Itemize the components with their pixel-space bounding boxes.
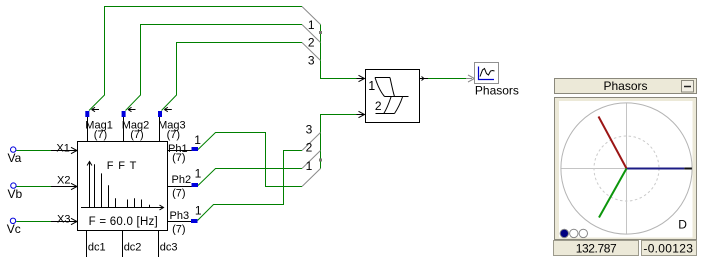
svg-text:2: 2	[308, 36, 315, 50]
svg-text:3: 3	[308, 54, 315, 68]
svg-text:(7): (7)	[167, 129, 180, 141]
svg-text:Vb: Vb	[8, 187, 23, 201]
svg-text:X1: X1	[56, 143, 69, 155]
svg-text:F F T: F F T	[107, 160, 138, 172]
svg-text:F = 60.0 [Hz]: F = 60.0 [Hz]	[89, 216, 158, 228]
svg-text:Va: Va	[8, 151, 22, 165]
svg-text:1: 1	[368, 79, 375, 93]
svg-text:dc3: dc3	[160, 241, 178, 253]
svg-text:Phasors: Phasors	[603, 79, 647, 93]
svg-text:(7): (7)	[172, 187, 185, 199]
svg-text:2: 2	[375, 99, 382, 113]
svg-text:Phasors: Phasors	[475, 83, 519, 97]
svg-text:132.787: 132.787	[576, 241, 617, 255]
svg-text:(7): (7)	[172, 223, 185, 235]
svg-text:1: 1	[308, 18, 315, 32]
svg-text:Vc: Vc	[7, 222, 21, 236]
svg-text:1: 1	[306, 159, 313, 173]
svg-text:Ph3: Ph3	[170, 210, 190, 222]
svg-text:1: 1	[195, 203, 202, 217]
svg-text:1: 1	[194, 133, 201, 147]
svg-text:-0.00123: -0.00123	[643, 241, 693, 255]
svg-text:dc2: dc2	[124, 241, 142, 253]
svg-text:D: D	[678, 217, 687, 231]
svg-text:2: 2	[306, 141, 313, 155]
svg-text:1: 1	[195, 166, 202, 180]
svg-text:(7): (7)	[94, 129, 107, 141]
svg-text:Ph2: Ph2	[172, 174, 192, 186]
svg-text:X3: X3	[57, 214, 70, 226]
svg-text:3: 3	[306, 123, 313, 137]
svg-text:dc1: dc1	[88, 241, 106, 253]
svg-text:(7): (7)	[130, 129, 143, 141]
svg-text:X2: X2	[57, 175, 70, 187]
svg-text:(7): (7)	[172, 152, 185, 164]
